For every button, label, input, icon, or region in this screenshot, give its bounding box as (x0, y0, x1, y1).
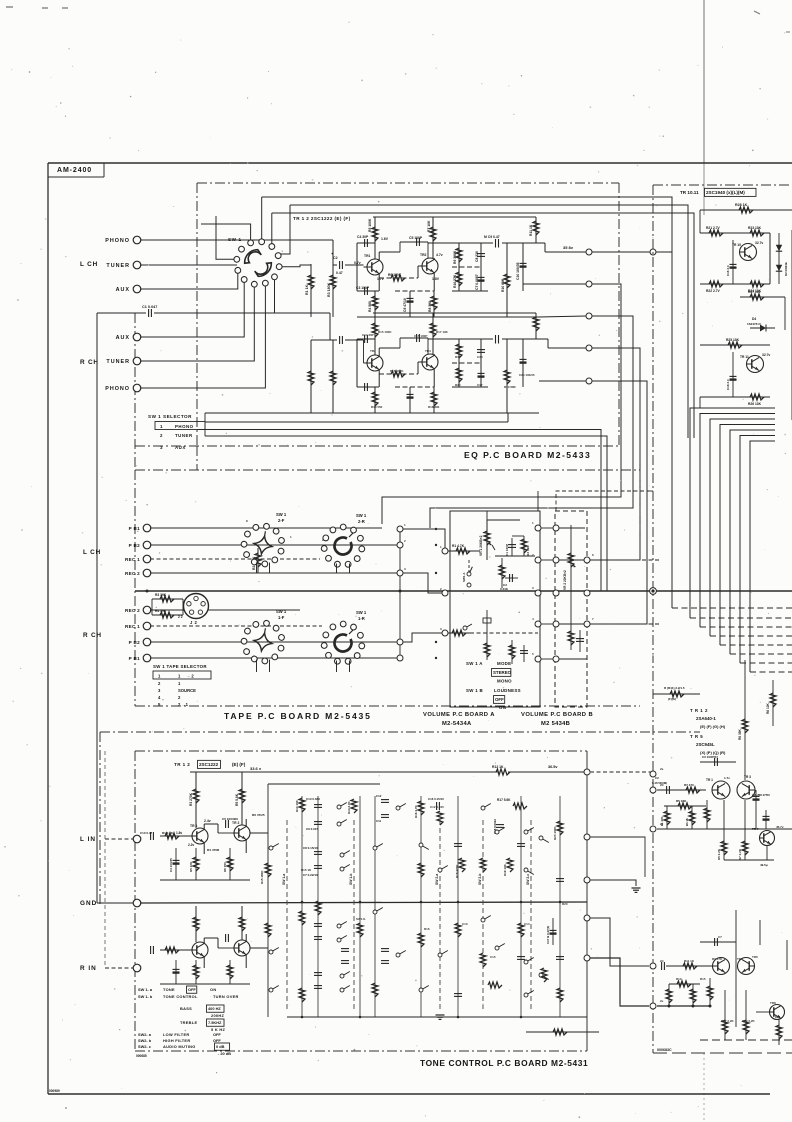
svg-text:R20 100K: R20 100K (553, 826, 557, 840)
svg-text:C4 100/25: C4 100/25 (169, 858, 173, 872)
svg-text:M C9 0.47: M C9 0.47 (484, 235, 500, 239)
diode D2 (778, 233, 780, 284)
right exits mid (699, 397, 701, 408)
svg-text:3: 3 (158, 688, 161, 693)
svg-text:49.5μ: 49.5μ (760, 863, 768, 867)
transistor TR1 (367, 259, 383, 275)
capacitor C3 100P (357, 290, 379, 292)
svg-text:C14 30P: C14 30P (362, 333, 374, 337)
wire dash y1040 (700, 1039, 792, 1041)
svg-text:R21 2.7V: R21 2.7V (706, 226, 721, 230)
svg-text:TONE: TONE (163, 987, 175, 992)
svg-text:000685: 000685 (136, 1054, 147, 1058)
resistor R1 4.7K (448, 550, 480, 552)
legend row 1 PHONO (155, 422, 205, 430)
svg-text:SW 1: SW 1 (228, 237, 242, 242)
jack J2 (184, 594, 209, 619)
terminal tape REC 2 610 (143, 606, 151, 614)
svg-text:SW 1- b: SW 1- b (138, 994, 153, 999)
svg-text:TUNER: TUNER (106, 263, 130, 269)
wire vol rows (448, 592, 538, 594)
capacitor C2 0.018 (505, 577, 518, 579)
volume lower components (486, 610, 488, 640)
svg-text:2-R: 2-R (358, 519, 365, 524)
matrix resistor R16 (418, 801, 424, 815)
matrix column wire (520, 796, 522, 1017)
svg-text:R10 68K: R10 68K (501, 278, 505, 292)
capacitor C1 100P (511, 538, 513, 556)
left matrix contacts (269, 846, 273, 850)
capacitor C9 0.47 (481, 242, 497, 244)
tone cell lower parts (175, 960, 177, 984)
connector pins tone right (584, 834, 590, 840)
svg-text:C16 3.3: C16 3.3 (726, 265, 730, 276)
svg-text:- 20 dB: - 20 dB (218, 1051, 231, 1056)
resistor R4 39K (152, 614, 183, 616)
lower matrix resistors (455, 923, 461, 937)
svg-text:36.5v: 36.5v (548, 765, 558, 769)
capacitor C5 100P (400, 337, 428, 339)
svg-text:R4 470B: R4 470B (207, 848, 220, 852)
svg-text:AUX: AUX (116, 335, 130, 341)
resistor R4 560 (374, 387, 376, 413)
svg-text:SW2- c: SW2- c (138, 1044, 152, 1049)
transistor TR lower C (770, 1005, 785, 1020)
terminal AUX R (133, 333, 141, 341)
svg-text:2: 2 (404, 539, 406, 543)
transistor TR3 right (737, 781, 755, 799)
svg-text:ON: ON (210, 987, 216, 992)
wire tone out3 (590, 958, 649, 1006)
matrix wire r32 (526, 1031, 599, 1033)
resistor R13 10K (299, 798, 305, 812)
wire rec2 L (150, 572, 400, 574)
terminal PHONO L (133, 236, 141, 244)
svg-text:C17: C17 (477, 383, 483, 387)
wire eq rail top (373, 216, 536, 218)
capacitor C4 30P (357, 242, 375, 244)
svg-text:1: 1 (178, 674, 181, 679)
svg-text:R20: R20 (455, 383, 461, 387)
transistor TR lower B (738, 958, 755, 975)
fan wire (690, 408, 775, 618)
svg-text:SW 1-a: SW 1-a (282, 874, 286, 885)
svg-text:C15 100P: C15 100P (414, 334, 427, 338)
capacitor C2b (337, 335, 345, 345)
svg-text:R22 2.7V: R22 2.7V (706, 289, 721, 293)
svg-text:REC 2: REC 2 (125, 571, 140, 576)
nested dashed fan right (672, 607, 792, 609)
svg-text:R13 10K: R13 10K (295, 799, 299, 812)
svg-text:1-R: 1-R (358, 616, 365, 621)
wire bus top3 (272, 213, 694, 438)
svg-text:R16 4.7K: R16 4.7K (414, 804, 418, 818)
svg-text:3: 3 (440, 627, 442, 631)
svg-text:R1 4.7K: R1 4.7K (452, 544, 465, 548)
svg-text:R17 5.6K: R17 5.6K (497, 798, 511, 802)
terminal tape P B1 658 (143, 654, 151, 662)
svg-text:1: 1 (160, 424, 163, 429)
svg-text:4.7v: 4.7v (436, 253, 443, 257)
matrix column wire (374, 796, 376, 1017)
svg-text:L IN: L IN (80, 836, 96, 843)
svg-text:R17 2.2K: R17 2.2K (721, 1019, 735, 1023)
svg-text:C15: C15 (490, 955, 496, 959)
svg-text:C4 30P: C4 30P (357, 235, 369, 239)
svg-text:R13: R13 (676, 977, 682, 981)
wire eq bottom exits (205, 412, 539, 414)
wire sw left (216, 216, 234, 259)
svg-text:2e: 2e (660, 999, 664, 1003)
wire volB top feed (556, 491, 649, 511)
wire aux R (140, 283, 244, 338)
wire volume outputs right (590, 559, 660, 561)
wire y966 (666, 965, 712, 967)
transistor TR2 tone (234, 940, 250, 956)
contacts right lower (495, 946, 499, 950)
terminal tape P B2 642 (143, 638, 151, 646)
svg-text:REC 1: REC 1 (125, 624, 140, 629)
svg-text:LOW FILTER: LOW FILTER (163, 1032, 189, 1037)
matrix junction dots (301, 901, 304, 904)
wire tuner L (140, 264, 237, 266)
wire eq node1 right (592, 251, 650, 253)
resistor R6 100K (379, 373, 418, 375)
wire rec1 R (150, 625, 322, 627)
R19 13K (507, 858, 513, 872)
svg-text:1.6V: 1.6V (381, 237, 389, 241)
svg-text:1: 1 (290, 535, 292, 539)
fan wire (700, 414, 775, 628)
svg-text:SOURCE: SOURCE (178, 688, 196, 693)
svg-text:0.47: 0.47 (336, 271, 343, 275)
rotary switch SW1 2-R (321, 524, 364, 567)
svg-text:2a: 2a (660, 767, 664, 771)
capacitor C10 0.033 (314, 804, 322, 806)
svg-text:L CH: L CH (83, 549, 101, 556)
terminal PHONO R (133, 384, 141, 392)
svg-text:C1 100P: C1 100P (505, 544, 509, 556)
resistor R3 39K (523, 536, 525, 556)
svg-text:R17 10K: R17 10K (436, 330, 449, 334)
svg-text:REC 2: REC 2 (125, 608, 140, 613)
svg-text:C10 0.033: C10 0.033 (306, 797, 320, 801)
heavy bus y591 (135, 590, 792, 592)
ground right (632, 887, 641, 889)
svg-text:P B2: P B2 (129, 543, 140, 548)
capacitor C8 47-50 (755, 790, 757, 806)
svg-text:SW 1- a: SW 1- a (138, 987, 153, 992)
svg-text:C8 47/50: C8 47/50 (758, 793, 770, 797)
wire tone tr wiring (203, 824, 205, 830)
matrix bottom wire (287, 1016, 587, 1018)
wire rec1 L (150, 558, 320, 560)
C17B 0.47 (552, 918, 554, 945)
resistor R14 4.7K (351, 799, 357, 813)
svg-text:SW 1: SW 1 (356, 513, 367, 518)
resistor R5 5.6K (241, 772, 243, 825)
svg-text:2d: 2d (660, 959, 664, 963)
capacitor C5 100P (400, 241, 428, 243)
svg-text:C7 0.22/10: C7 0.22/10 (303, 873, 318, 877)
lower right verticals (668, 984, 670, 1006)
svg-text:AUDIO MUTING: AUDIO MUTING (163, 1044, 196, 1049)
svg-text:C18: C18 (477, 355, 483, 359)
pins lower right (650, 963, 656, 969)
transistor TR10 (740, 244, 757, 261)
svg-text:TAPE P.C BOARD M2-5435: TAPE P.C BOARD M2-5435 (224, 711, 372, 721)
svg-text:R IN: R IN (80, 965, 97, 972)
svg-text:45.7v: 45.7v (776, 825, 784, 829)
capacitor C6 47-10 (409, 291, 411, 317)
svg-text:C2: C2 (333, 256, 338, 260)
svg-text:OFF: OFF (213, 1032, 221, 1037)
svg-text:C12: C12 (376, 794, 382, 798)
svg-text:C7 0.0067: C7 0.0067 (475, 274, 479, 290)
wire eq node4 route (590, 348, 640, 560)
svg-text:SW 1-b: SW 1-b (349, 874, 353, 886)
capacitor C5 tone (225, 934, 227, 942)
svg-text:ON: ON (499, 705, 506, 710)
resistor R7 10K (432, 217, 434, 258)
svg-text:2.4v: 2.4v (204, 819, 211, 823)
terminal L IN (133, 835, 141, 843)
svg-text:C9 0.015: C9 0.015 (306, 827, 319, 831)
wire sw riser 3 (271, 213, 273, 244)
svg-text:REC 1: REC 1 (125, 557, 140, 562)
terminal tape P B2 545 (143, 541, 151, 549)
svg-text:2b: 2b (660, 783, 664, 787)
capacitor C5 tone (225, 820, 227, 828)
wire aux L (140, 274, 238, 290)
svg-text:2SC1940 (x)(L)(M): 2SC1940 (x)(L)(M) (706, 190, 745, 195)
tape pin dots (435, 528, 437, 530)
wire supply to right (590, 771, 653, 773)
svg-text:C12 0.015: C12 0.015 (430, 805, 444, 809)
svg-text:R5 18K: R5 18K (676, 799, 687, 803)
TONE board outline (135, 750, 587, 752)
svg-text:(E) (F) (G) (H): (E) (F) (G) (H) (700, 724, 726, 729)
transistor TR2 (422, 354, 438, 370)
svg-text:1.7v: 1.7v (724, 776, 730, 780)
svg-text:C18 3.3: C18 3.3 (726, 379, 730, 390)
matrix column wire (317, 796, 319, 1017)
svg-text:R19 2.2K: R19 2.2K (742, 1019, 756, 1023)
input cap/res (150, 832, 152, 840)
svg-text:VOLUME P.C BOARD A: VOLUME P.C BOARD A (423, 712, 495, 718)
svg-text:BASS: BASS (180, 1006, 192, 1011)
node K bus (650, 588, 657, 595)
resistor R11 1K (535, 313, 537, 339)
pins tape bus (397, 526, 403, 532)
right board outline (653, 184, 792, 186)
wire tuner R (140, 287, 254, 361)
svg-text:STEREO: STEREO (493, 670, 512, 675)
svg-text:6: 6 (592, 553, 594, 557)
svg-text:C7: C7 (718, 935, 722, 939)
capacitor C8 0.15-10 (314, 851, 322, 853)
svg-text:1: 1 (404, 523, 406, 527)
capacitor C7 0.22-10 (314, 865, 322, 867)
svg-text:D2 RD24E: D2 RD24E (784, 262, 788, 276)
svg-text:TR6: TR6 (752, 955, 758, 959)
svg-text:2SC945L: 2SC945L (696, 742, 715, 747)
svg-text:SW2- a: SW2- a (138, 1032, 152, 1037)
R22 matrix (488, 982, 502, 988)
svg-text:SW1 A: SW1 A (462, 572, 466, 582)
capacitor C17B (579, 630, 581, 652)
matrix extra resistors (265, 923, 271, 937)
svg-text:T R 5: T R 5 (690, 734, 703, 739)
svg-text:32.7v: 32.7v (762, 353, 770, 357)
matrix column wire (457, 796, 459, 1017)
terminal TUNER L (133, 261, 141, 269)
wire sw riser 2 (261, 197, 263, 239)
svg-text:R26 13K: R26 13K (748, 402, 762, 406)
matrix extra blades right lower (438, 868, 442, 872)
svg-text:C8 220: C8 220 (475, 251, 479, 262)
capacitor C10 100-35 (522, 243, 524, 291)
terminal GND (133, 899, 141, 907)
capacitor C4 30P (357, 338, 375, 340)
svg-text:M2-5434A: M2-5434A (442, 721, 472, 727)
matrix column wire (420, 796, 422, 1017)
svg-text:TR 10.11: TR 10.11 (680, 190, 699, 195)
capacitor C9 0.47 (481, 338, 497, 340)
svg-text:TR8: TR8 (770, 1001, 776, 1005)
wire eq rail top (373, 312, 536, 314)
connector pins volume (442, 548, 448, 554)
wire tr legs (378, 348, 380, 356)
resistor R2 100K tape (257, 548, 259, 573)
wire sw riser 1 (201, 224, 251, 240)
transistor TR1 (367, 355, 383, 371)
resistor R23 13K (750, 230, 764, 236)
svg-text:L CH: L CH (80, 261, 98, 268)
capacitor C2 0.47 (333, 264, 360, 266)
resistor R25 13K (728, 342, 742, 348)
svg-text:C16 0.15/10: C16 0.15/10 (428, 797, 444, 801)
resistor R26 13K (750, 394, 764, 400)
fan wire (710, 419, 775, 636)
svg-text:32.7v: 32.7v (755, 241, 763, 245)
svg-text:P B2: P B2 (129, 640, 140, 645)
svg-text:TONE CONTROL P.C BOARD M2-5: TONE CONTROL P.C BOARD M2-5431 (420, 1058, 588, 1068)
resistor R15 1K (299, 911, 305, 925)
svg-text:4: 4 (532, 617, 534, 621)
matrix column wire (559, 796, 561, 1017)
wire rec2 R (150, 609, 300, 611)
svg-text:TR 1 2 2SC1222 (E) (F): TR 1 2 2SC1222 (E) (F) (293, 216, 351, 221)
switch gang line SW 2-c (530, 820, 532, 1010)
wire eq node2 route (382, 284, 621, 524)
svg-text:SW1-b: SW1-b (356, 917, 366, 921)
matrix column wire (359, 796, 361, 1017)
resistor R28 1K (700, 209, 792, 211)
svg-text:R23 13K: R23 13K (748, 226, 762, 230)
resistor y966 (683, 963, 697, 969)
svg-text:LOUDNESS: LOUDNESS (494, 688, 521, 693)
svg-text:R25 13K: R25 13K (726, 338, 740, 342)
svg-text:R4 39K: R4 39K (155, 609, 167, 613)
svg-text:33.6 v: 33.6 v (250, 766, 262, 771)
resistor R6 100K (379, 277, 418, 279)
wire tape to volume (436, 529, 445, 551)
svg-text:OFF: OFF (495, 697, 504, 702)
wire tone input stubs (105, 838, 133, 840)
capacitor y966 (661, 962, 663, 970)
svg-text:T R 1 2: T R 1 2 (690, 708, 708, 713)
svg-text:PHONO: PHONO (105, 386, 130, 392)
svg-text:SW 1 B: SW 1 B (466, 688, 483, 693)
terminal R IN (133, 964, 141, 972)
tone cell lower parts (175, 848, 177, 880)
resistor R7 10K (432, 313, 434, 354)
capacitor C10 100-35 (522, 339, 524, 387)
svg-text:000989: 000989 (49, 1089, 60, 1093)
lower right resistors (724, 990, 726, 1040)
terminal AUX L (133, 285, 141, 293)
resistor R24 13K (750, 281, 764, 287)
svg-text:HIGH FILTER: HIGH FILTER (163, 1038, 190, 1043)
svg-text:M2 5434B: M2 5434B (541, 721, 570, 727)
svg-text:TR4: TR4 (425, 349, 431, 353)
svg-text:C10 100/35: C10 100/35 (516, 262, 520, 280)
resistor R22 2.7K (709, 281, 723, 287)
capacitor C18 3.3 (732, 352, 734, 397)
svg-text:R3 270K: R3 270K (189, 792, 193, 806)
svg-text:AUX: AUX (116, 287, 130, 293)
svg-text:R5 10K: R5 10K (189, 861, 193, 872)
svg-text:C11: C11 (376, 819, 382, 823)
fan wire (730, 430, 775, 654)
svg-text:R15 180K: R15 180K (260, 870, 264, 884)
svg-text:R10 27K: R10 27K (453, 274, 457, 288)
svg-text:R18 470K: R18 470K (455, 864, 459, 878)
svg-text:2: 2 (160, 433, 163, 438)
tone matrix frame (267, 784, 269, 1017)
wire sw stubs (256, 563, 258, 574)
svg-text:1: 1 (158, 674, 161, 679)
svg-text:SW 1 A: SW 1 A (466, 661, 483, 666)
wire eq out upper to node (502, 242, 545, 244)
resistor R11 1K (535, 217, 537, 243)
wire tr legs (378, 252, 380, 260)
feedback network R9 R10 C7 C8 (452, 242, 488, 244)
svg-text:GND: GND (80, 900, 97, 907)
rotary switch SW1 selector (229, 234, 287, 292)
svg-text:R3 39K: R3 39K (526, 545, 530, 556)
svg-text:R28 1K: R28 1K (735, 203, 748, 207)
wire sw out (282, 265, 311, 267)
svg-text:2.2v: 2.2v (188, 843, 194, 847)
R18 470K (459, 858, 465, 872)
rotary switch SW1 2-F (238, 520, 288, 570)
svg-text:0.7v: 0.7v (354, 261, 361, 265)
svg-text:2: 2 (158, 681, 161, 686)
resistor R12 1K (496, 769, 510, 775)
svg-text:R5 100K: R5 100K (368, 218, 372, 232)
svg-text:TR 2: TR 2 (232, 821, 239, 825)
resistor R1 1K (310, 264, 312, 317)
capacitor C1 0.047 (97, 312, 330, 314)
svg-text:TREBLE: TREBLE (180, 1020, 197, 1025)
right cell A wires (700, 232, 770, 234)
transistor TR1 tone (192, 942, 208, 958)
svg-text:TR 3: TR 3 (744, 775, 751, 779)
resistor R8 390 (433, 387, 435, 413)
svg-text:R6 100K: R6 100K (388, 273, 402, 277)
